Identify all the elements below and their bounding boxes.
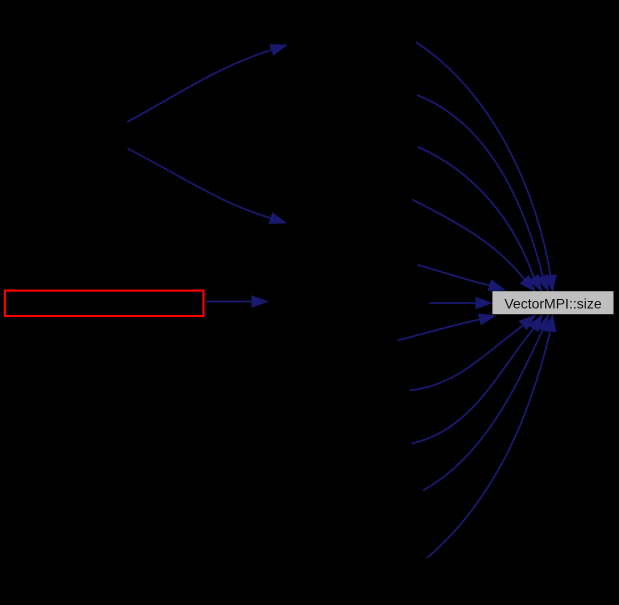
edge c1: caller 1 -> VectorMPI::size bbox=[416, 42, 556, 291]
edge c2: caller 2 -> VectorMPI::size bbox=[417, 95, 548, 291]
node: current function (red outlined box, label invisible on black) bbox=[5, 291, 204, 316]
svg-text:VectorMPI::size: VectorMPI::size bbox=[504, 296, 601, 312]
edge c4: caller 4 -> VectorMPI::size bbox=[412, 200, 535, 291]
node VectorMPI::size (gray filled box) bbox=[492, 291, 613, 314]
edge c3: caller 3 -> VectorMPI::size bbox=[418, 147, 542, 291]
edge c10: caller 11 -> VectorMPI::size bbox=[427, 316, 556, 559]
edge e5: caller 5 -> VectorMPI::size (top-left corner) bbox=[418, 265, 505, 290]
edge: invisible caller -> middle callee B (down-right) bbox=[128, 149, 286, 224]
edge e7: caller 7 -> VectorMPI::size (bottom-left corner) bbox=[398, 314, 496, 341]
edge c7: caller 8 -> VectorMPI::size bbox=[410, 315, 535, 390]
edge e6: caller 6 -> VectorMPI::size (straight left) bbox=[429, 298, 491, 309]
edge c8: caller 9 -> VectorMPI::size bbox=[412, 315, 542, 443]
edge: red current-function box -> middle callee C bbox=[205, 296, 268, 307]
edge c9: caller 10 -> VectorMPI::size bbox=[423, 315, 548, 490]
edge: invisible caller -> middle callee A (up-right) bbox=[127, 45, 286, 122]
